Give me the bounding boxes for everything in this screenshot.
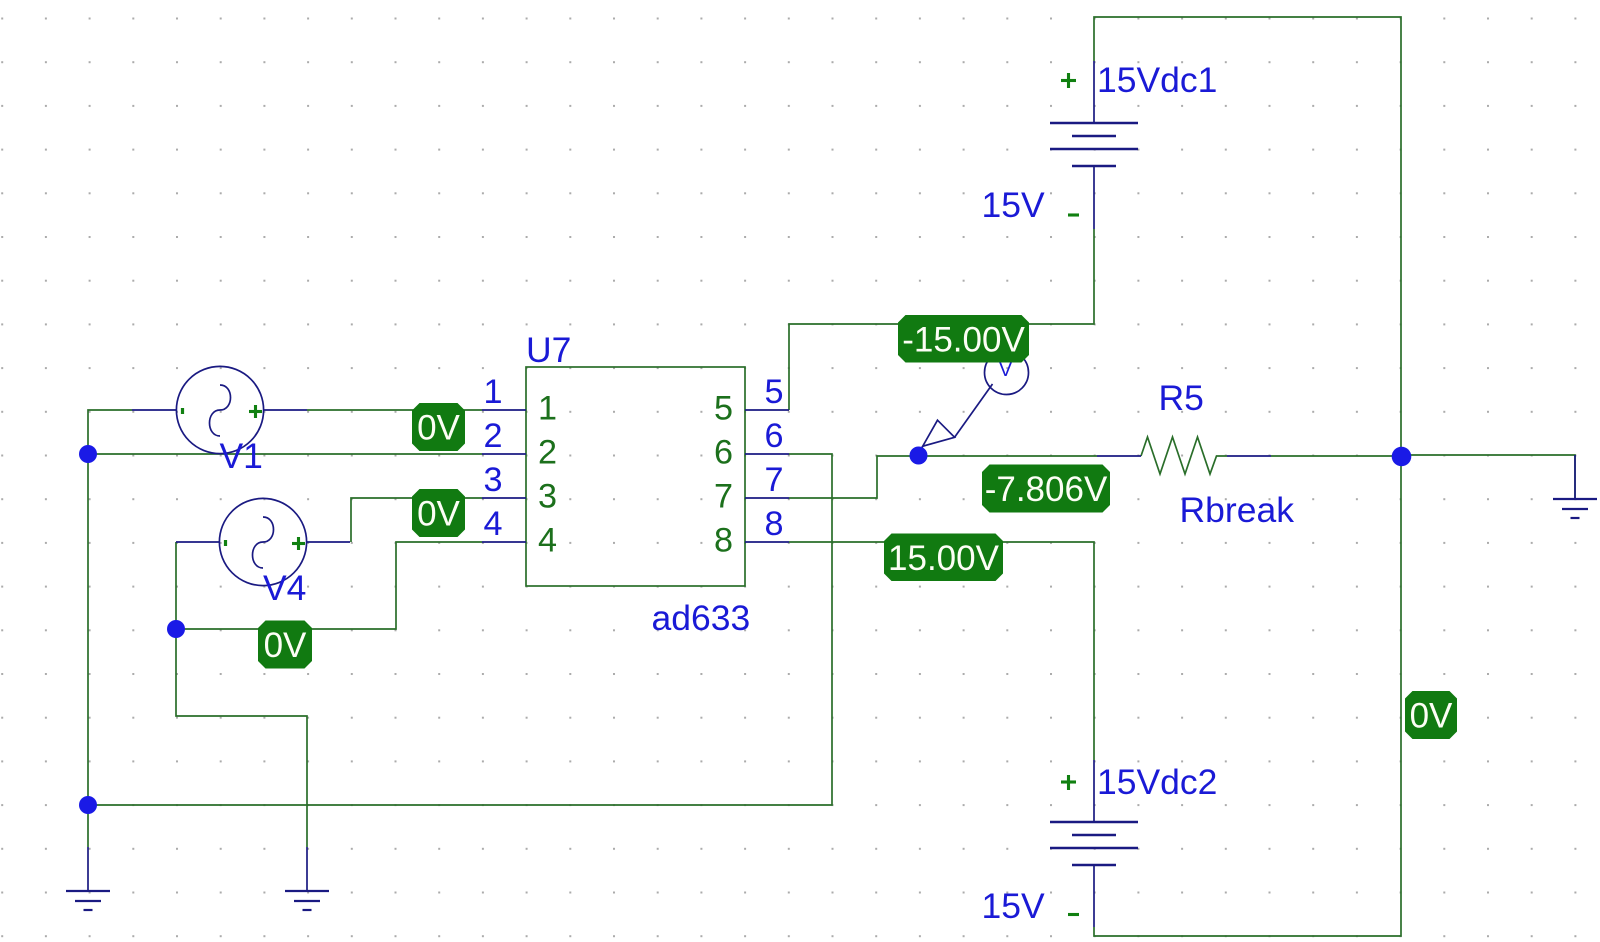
svg-text:8: 8 (714, 522, 733, 560)
15Vdc1 minus mark (1068, 213, 1079, 216)
svg-text:Rbreak: Rbreak (1180, 490, 1295, 530)
V4 minus mark (224, 540, 227, 546)
svg-text:3: 3 (483, 461, 502, 499)
svg-text:4: 4 (483, 505, 502, 543)
V1 plus mark (249, 405, 262, 418)
svg-text:R5: R5 (1159, 378, 1204, 418)
wire pin1 to V1 plus (307, 409, 482, 411)
bias label 15.00V (884, 534, 1003, 582)
svg-text:2: 2 (538, 434, 557, 472)
wire pin6 down to bottom net (88, 454, 832, 847)
svg-text:15Vdc2: 15Vdc2 (1097, 762, 1217, 802)
svg-text:8: 8 (764, 505, 783, 543)
svg-text:6: 6 (714, 434, 733, 472)
ground G3 (1553, 455, 1597, 518)
svg-text:15Vdc1: 15Vdc1 (1097, 60, 1217, 100)
resistor R5 leads (1097, 455, 1271, 457)
svg-text:15.00V: 15.00V (888, 539, 1000, 578)
wire V4 plus to pin3 (351, 498, 482, 542)
svg-text:5: 5 (764, 373, 783, 411)
svg-text:15V: 15V (982, 185, 1045, 225)
V4 plus mark (292, 537, 305, 550)
svg-text:0V: 0V (417, 409, 460, 448)
15Vdc1 plus mark (1061, 73, 1076, 88)
bias label 0V node (258, 621, 312, 669)
resistor R5 (1141, 437, 1227, 474)
U7 pin stubs right (745, 410, 789, 542)
wire V1 minus to node (88, 410, 132, 805)
svg-text:-15.00V: -15.00V (902, 320, 1025, 359)
wire pin7 to resistor row (789, 456, 1097, 498)
wire resistor to right rail junction (1271, 455, 1401, 457)
wire pin2 row (88, 453, 482, 455)
bias label -7.806V (982, 465, 1110, 513)
svg-text:1: 1 (483, 373, 502, 411)
15Vdc2 plus mark (1061, 775, 1076, 790)
ground G2 (285, 847, 329, 910)
wire net VCC top rail (1094, 17, 1401, 936)
svg-text:1: 1 (538, 390, 557, 428)
junction dot node B (167, 620, 185, 638)
junction dot node A (79, 445, 97, 463)
IC U7 ad633 body (526, 367, 745, 586)
voltage source V4 (176, 498, 350, 585)
battery 15Vdc1 (1050, 61, 1138, 229)
bias label 0V pin3 (412, 489, 465, 537)
svg-text:U7: U7 (526, 330, 571, 370)
bias label -15.00V (898, 315, 1029, 363)
svg-text:4: 4 (538, 522, 557, 560)
svg-text:-7.806V: -7.806V (985, 470, 1108, 509)
battery 15Vdc2 (1050, 760, 1138, 927)
svg-text:5: 5 (714, 390, 733, 428)
svg-text:7: 7 (714, 478, 733, 516)
svg-text:V1: V1 (220, 436, 263, 476)
wire V4 minus down to ground G2 (176, 542, 307, 847)
voltage probe marker (919, 351, 1029, 456)
U7 pin stubs left (482, 410, 526, 542)
svg-text:7: 7 (764, 461, 783, 499)
bias label 0V pin1 (412, 403, 465, 451)
svg-text:6: 6 (764, 417, 783, 455)
junction dot node C (79, 796, 97, 814)
svg-text:0V: 0V (417, 495, 460, 534)
svg-text:3: 3 (538, 478, 557, 516)
svg-text:2: 2 (483, 417, 502, 455)
wire 0V node to pin4 (176, 542, 482, 629)
junction dot right rail node (1392, 447, 1412, 467)
wire pin8 to battery 15Vdc2 (789, 542, 1094, 760)
svg-text:15V: 15V (982, 886, 1045, 926)
voltage source V1 (132, 366, 307, 453)
wire -15V rail from battery bottom to pin5 (789, 229, 1094, 410)
ground G1 (66, 847, 110, 910)
wire junction to right ground (1401, 455, 1575, 499)
svg-text:0V: 0V (1410, 697, 1453, 736)
15Vdc2 minus mark (1068, 913, 1079, 916)
junction dot probe node (910, 447, 928, 465)
svg-text:V4: V4 (263, 568, 306, 608)
svg-text:ad633: ad633 (652, 598, 751, 638)
V1 minus mark (181, 408, 184, 414)
bias label 0V right rail (1405, 691, 1457, 739)
svg-text:0V: 0V (264, 626, 307, 665)
